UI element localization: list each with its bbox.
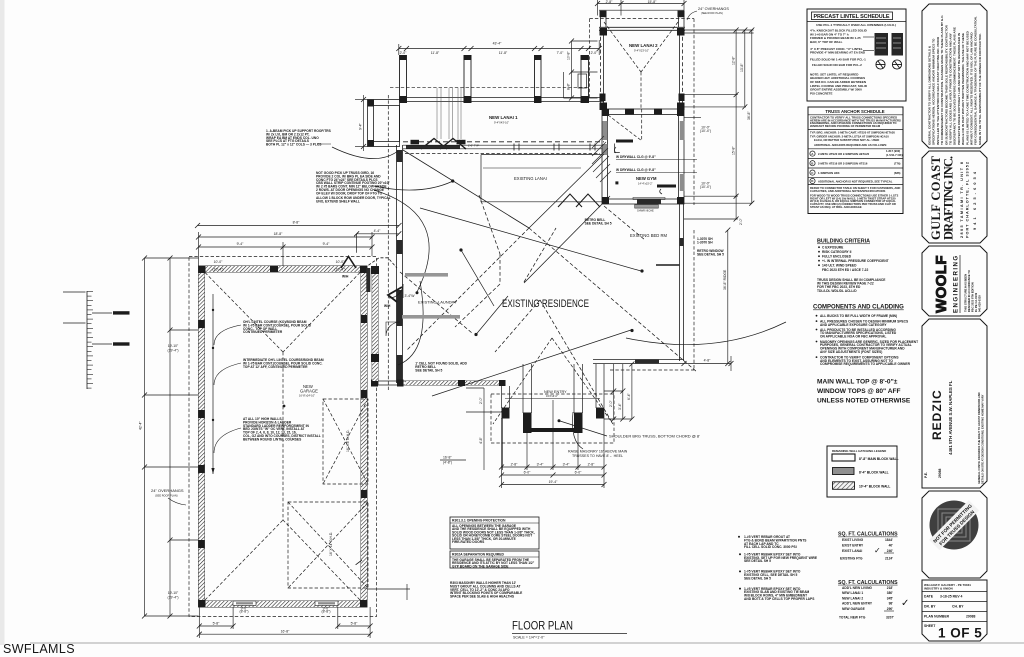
strip section 6: title table [922,580,987,641]
truss anchor schedule box [808,107,903,214]
svg-text:C EXPOSURE: C EXPOSURE [822,246,844,250]
svg-text:EXISTING RESIDENCE: EXISTING RESIDENCE [502,298,589,310]
svg-text:SEE DETAIL SH 5: SEE DETAIL SH 5 [697,252,724,256]
svg-text:RISK CATEGORY II: RISK CATEGORY II [822,250,851,254]
svg-text:PSI CONCRETE: PSI CONCRETE [810,91,833,95]
below-gym gray step [635,205,659,209]
entry roof dashed [491,338,614,443]
svg-text:2'-0": 2'-0" [609,399,613,407]
svg-text:13'-8": 13'-8" [740,63,744,72]
dims right of entry [604,364,632,419]
gym/lanai2 right dims [684,30,754,219]
svg-text:WARRANT BEFORE POURING OF PERI: WARRANT BEFORE POURING OF PERIMETER BEAM [810,124,881,128]
svg-text:2'-8": 2'-8" [511,463,519,467]
svg-text:ADD'L NEW ENTRY: ADD'L NEW ENTRY [842,602,873,606]
left measuring ruler [63,291,86,293]
circled row letters [810,151,815,184]
solid ridge connector [524,196,610,283]
garage door X-box 2 (16x14 OHD) [288,502,368,588]
svg-text:EXIST LIVING: EXIST LIVING [842,538,864,542]
residence south wall (west part) [372,381,505,385]
svg-text:TRUSS ANCHOR SCHEDULE: TRUSS ANCHOR SCHEDULE [825,109,884,114]
walkway wall dark segment [366,268,370,292]
strip section 5: stamp [922,491,987,578]
svg-text:PROVIDE 4" MIN BEARING AT EA E: PROVIDE 4" MIN BEARING AT EA END [810,51,866,55]
svg-text:140 ULT. WIND SPEED: 140 ULT. WIND SPEED [822,264,857,268]
svg-text:COMPROMISE REQUIREMENTS TO APP: COMPROMISE REQUIREMENTS TO APPLICABLE OW… [820,362,911,366]
svg-text:UNLESS NOTED OTHERWISE: UNLESS NOTED OTHERWISE [817,398,911,405]
lanai 2 posts [600,11,685,110]
garage wall: outer and inner [199,266,368,607]
svg-text:NEW LANAI 2: NEW LANAI 2 [842,596,863,600]
center hip ridge dashed band [455,195,556,327]
R301.3.1 opening protection box [450,517,539,549]
detail bubbles [876,60,902,69]
garage overhang dashed outline [189,257,377,617]
svg-text:CONTINUED PERIMETER: CONTINUED PERIMETER [243,330,283,334]
dim vertical right of residence [727,230,729,364]
svg-text:(8'-8"): (8'-8") [239,610,248,614]
svg-text:(19'-4"): (19'-4") [168,596,179,600]
residence left wall [397,145,403,383]
stamp circle [930,501,979,550]
svg-text:SEE DETAIL SH 5: SEE DETAIL SH 5 [415,369,442,373]
dim ticks left [142,256,173,619]
lanai 2 top beam [599,16,685,108]
svg-text:EXISTING FTG: EXISTING FTG [840,556,863,560]
svg-text:ADDITIONAL ANCHORS REQUIRED AR: ADDITIONAL ANCHORS REQUIRED ARE AS FOLLO… [814,143,887,147]
svg-text:TOTAL NEW FTG: TOTAL NEW FTG [839,616,866,620]
svg-text:REMAINING WALL HATCHING LEGEND: REMAINING WALL HATCHING LEGEND [832,449,886,453]
svg-text:6'-0": 6'-0" [524,471,532,475]
svg-text:24" OVERHANGS: 24" OVERHANGS [151,488,184,493]
svg-text:FBC 2023 8TH EDITION: FBC 2023 8TH EDITION [971,282,975,312]
svg-text:BAR, 6" TOP OF WALL: BAR, 6" TOP OF WALL [810,40,843,44]
svg-text:RAISE MASONRY 16" ABOVE MAIN: RAISE MASONRY 16" ABOVE MAIN [568,450,628,454]
svg-text:EXISTING BED RM: EXISTING BED RM [630,233,668,238]
svg-text:5'-8": 5'-8" [351,622,359,626]
svg-text:NEW LANAI 1: NEW LANAI 1 [489,115,518,120]
svg-text:(SEE ROOF PLAN): (SEE ROOF PLAN) [701,12,723,15]
svg-text:SPACE PER SEE SLAB & HIGH HEAL: SPACE PER SEE SLAB & HIGH HEALTHS [450,595,515,599]
svg-text:PORT CHARLOTTE, FL 33952: PORT CHARLOTTE, FL 33952 [966,162,970,238]
residence right wall below gym [680,204,684,361]
strip section 2: GULF COAST DRAFTING INC [922,151,987,243]
svg-text:SEE DETAIL SH 5: SEE DETAIL SH 5 [744,576,771,580]
svg-text:UNO, EXTEND SHELF WALL: UNO, EXTEND SHELF WALL [316,200,360,204]
svg-text:290': 290' [887,607,893,611]
residence south wall (east part) [593,360,684,364]
svg-text:FIRE-RATED DOORS: FIRE-RATED DOORS [452,540,485,544]
garage NE gable peak [341,257,356,269]
svg-text:WOOLF: WOOLF [933,255,950,313]
svg-text:EXISTING-LAUNDRY: EXISTING-LAUNDRY [418,300,457,305]
svg-text:(10'-4"): (10'-4") [700,185,711,189]
svg-text:ADD'L NEW LIVING: ADD'L NEW LIVING [842,586,872,590]
svg-text:SWFLAMLS: SWFLAMLS [3,642,75,656]
strip section 3: WOOLF ENGINEERING [922,246,987,316]
lanai1 overhang dashed top [390,86,590,88]
svg-text:W/H: W/H [384,304,391,308]
svg-text:USE PCL-1 TYPICALLY OVER ALL O: USE PCL-1 TYPICALLY OVER ALL OPENINGS (U… [816,23,896,27]
svg-text:1-SIMPSON HD3: 1-SIMPSON HD3 [818,171,840,175]
svg-text:218': 218' [887,586,893,590]
svg-text:TRUSSES TO HAVE 8'← HEEL: TRUSSES TO HAVE 8'← HEEL [572,454,623,458]
svg-text:FL PE CA-9139: FL PE CA-9139 [974,292,978,312]
masonry wall note [450,581,523,599]
svg-text:FILL CELL SOLID CONC. 3000 PSI: FILL CELL SOLID CONC. 3000 PSI [744,545,797,549]
svg-text:ALL BUCKS TO BE FULL WIDTH OF: ALL BUCKS TO BE FULL WIDTH OF FRAME (MIN… [820,314,897,318]
rebar bullet notes left of sqft [744,535,818,601]
svg-text:4461 5TH AVENUE S.W. NAPLES FL: 4461 5TH AVENUE S.W. NAPLES FL [948,380,953,455]
small post left-bottom gym [615,181,618,184]
entry dims left [466,388,503,470]
svg-text:CH. BY: CH. BY [952,605,964,609]
svg-text:9'-4": 9'-4" [237,242,245,246]
svg-text:2'-0": 2'-0" [739,217,743,225]
gable zigzag over residence wall [421,139,466,150]
lanai 1 posts [400,55,590,103]
svg-text:2'-0": 2'-0" [400,51,408,55]
lanai1 bottom overhang dashed [403,141,604,143]
svg-text:9'-4"X23'-10": 9'-4"X23'-10" [634,49,649,53]
svg-text:BOTH PL 12" x 12" COLS — 3 PLC: BOTH PL 12" x 12" COLS — 3 PLCS [266,143,322,147]
svg-text:36'-8": 36'-8" [747,111,751,120]
svg-text:PLAN NUMBER: PLAN NUMBER [924,615,950,619]
svg-text:11'-8": 11'-8" [499,51,508,55]
svg-text:1844': 1844' [885,538,893,542]
lanai 2 overhang dashed [590,19,695,205]
svg-text:16'-8": 16'-8" [281,630,290,634]
gym interior dashed roof [608,109,642,141]
lintel section images (dark blocks) [875,33,889,56]
svg-text:DRAFTING INC.: DRAFTING INC. [942,156,956,240]
svg-text:FLOOR PLAN: FLOOR PLAN [512,621,573,633]
svg-text:W/H: W/H [342,275,349,279]
svg-text:PRECAST LINTEL SCHEDULE: PRECAST LINTEL SCHEDULE [814,14,890,20]
entry dims bottom [502,400,605,488]
svg-text:AND BOTT.& TOP CELLS TOP PROPE: AND BOTT.& TOP CELLS TOP PROPER LAPS [744,597,815,601]
svg-text:3'-4": 3'-4" [537,463,545,467]
svg-text:ADDITIONAL ANCHOR IS NOT REQUI: ADDITIONAL ANCHOR IS NOT REQUIRED, SEE T… [818,179,893,183]
svg-text:3-18-25 REV 4: 3-18-25 REV 4 [940,595,963,599]
svg-text:16' X 14' O.H.D.: 16' X 14' O.H.D. [329,532,333,556]
dims above garage [198,226,400,267]
svg-text:1 OF 5: 1 OF 5 [938,626,982,641]
retro bell notes [585,218,612,226]
paver hatch left of gym [592,136,611,182]
svg-text:✓: ✓ [874,546,881,555]
svg-text:16'-8": 16'-8" [443,456,452,460]
svg-text:AND APPLICABLE EXPOSURE CATEGO: AND APPLICABLE EXPOSURE CATEGORY [820,323,887,327]
svg-text:4'-8": 4'-8" [704,359,712,363]
svg-text:GARAGE: GARAGE [300,389,318,394]
svg-text:2'-0": 2'-0" [479,396,483,404]
svg-text:(1.5/11.7 OK): (1.5/11.7 OK) [886,153,903,157]
svg-text:2-META HTS16 OR 2-SIMPSON HT: 2-META HTS16 OR 2-SIMPSON HTS16 [818,162,868,166]
svg-text:(8'-8"): (8'-8") [321,610,330,614]
dims above lanai 2 [598,0,685,16]
svg-text:DETAILS ON SITE AT DESIGN COND: DETAILS ON SITE AT DESIGN CONDITIONS, EX… [981,394,985,484]
svg-text:8"-8" MAIN BLOCK WALL: 8"-8" MAIN BLOCK WALL [859,457,899,461]
svg-text:TOP AT 12' AFF, CONTINUED PERI: TOP AT 12' AFF, CONTINUED PERIMETER [243,365,308,369]
svg-text:THIS STRUCTURE HAS BEEN: THIS STRUCTURE HAS BEEN [964,274,968,312]
strip section 4: REDZIC [922,319,987,488]
gable peaks near lanai/gym junction [558,194,582,207]
svg-text:(686): (686) [894,171,901,175]
svg-text:NEW GYM: NEW GYM [636,176,657,181]
svg-text:36'-8" RIDGE: 36'-8" RIDGE [723,269,727,290]
svg-text:42'-4": 42'-4" [139,421,143,430]
garage note 2 [243,358,324,369]
retro window notes [697,237,724,256]
svg-text:2-META HTS20 OR 2-SIMPSON HE: 2-META HTS20 OR 2-SIMPSON HETA20 [818,152,870,156]
dims below garage [199,584,410,638]
svg-text:MADE IN THE TOTAL RESPONSIBILI: MADE IN THE TOTAL RESPONSIBILITY OF THE … [978,33,982,145]
svg-text:DATE: DATE [924,595,934,599]
lintel schedule left column text [810,29,868,96]
lanai 2 roof dashes [604,22,678,109]
svg-text:29088: 29088 [966,615,976,619]
lanai 1 dim line [399,40,599,55]
existing lanai outline [481,155,602,202]
svg-text:7'-0": 7'-0" [557,51,565,55]
leader lines with dots [420,208,641,396]
dim line to garage [357,233,399,235]
svg-text:14'-4"x15'-2": 14'-4"x15'-2" [638,181,653,185]
svg-text:10'-0": 10'-0" [214,260,223,264]
entry posts [502,408,605,434]
svg-text:TYP. GIRDER ANCHOR: 2-META L: TYP. GIRDER ANCHOR: 2-META LGT2A AT SIMP… [810,134,889,138]
svg-text:TDL/LDL WDL/DL ACLL/D: TDL/LDL WDL/DL ACLL/D [817,289,857,293]
residence top wall hatched segments [406,145,460,149]
svg-text:✓: ✓ [901,598,909,609]
garage door X-box 1 (16x8 OHD) [323,399,368,484]
heavy bent leader near laundry [388,287,402,302]
roof peak marks near laundry top [365,258,398,268]
svg-text:1-817 (900): 1-817 (900) [886,149,900,153]
gym wall fills [602,109,684,205]
laundry west wall strip [372,267,378,385]
svg-text:43'-4": 43'-4" [493,42,502,46]
note leader arcs to arrow [214,325,241,453]
svg-text:ENGINEERING: ENGINEERING [953,255,960,313]
svg-text:29088: 29088 [938,468,942,478]
bed rm window on right wall [656,264,680,266]
svg-text:TYP. BRG. ANCHOR: 1-META CAM: TYP. BRG. ANCHOR: 1-META CAMT. HTS20 AT … [810,131,895,135]
svg-text:COMPONENTS AND CLADDING: COMPONENTS AND CLADDING [813,305,904,311]
svg-text:ON APPLICABLE NOA OR FBC APPRO: ON APPLICABLE NOA OR FBC APPROVAL [820,335,886,339]
svg-text:4'-4": 4'-4" [374,229,382,233]
svg-text:SQ. FT. CALCULATIONS: SQ. FT. CALCULATIONS [838,580,898,586]
left scan edge [0,0,5,645]
svg-text:MAIN WALL TOP @ 8'-0"±: MAIN WALL TOP @ 8'-0"± [817,379,898,386]
svg-text:3'-4"W: 3'-4"W [405,294,416,298]
svg-text:(19'-4"): (19'-4") [168,349,179,353]
svg-text:3'-4": 3'-4" [563,463,571,467]
svg-text:9'-4": 9'-4" [359,122,363,130]
dashed overhang left of residence [387,95,389,390]
svg-text:941-629-0329: 941-629-0329 [978,295,982,312]
svg-text:(SEE ROOF PLAN): (SEE ROOF PLAN) [155,493,178,497]
svg-text:BETWEEN ROUND LINTEL COURSES: BETWEEN ROUND LINTEL COURSES [243,437,302,441]
svg-text:24" OVERHANGS: 24" OVERHANGS [698,7,729,11]
bottom-right overhang dashed corner [610,230,694,370]
garage door openings in bottom wall [233,601,256,606]
svg-text:GENERAL CONTR. DRAWINGS THE RI: GENERAL CONTR. DRAWINGS THE RIGHT TO ADJ… [977,392,981,484]
existing wall lines under lanai1 [437,88,461,139]
svg-text:NEW ENTRY: NEW ENTRY [544,390,567,394]
lintel schedule box [807,9,906,101]
svg-text:OF ELEV W/ DOOR, DROP TOP OF F: OF ELEV W/ DOOR, DROP TOP OF FTG TO [316,191,383,195]
entry post stems [502,364,605,413]
leader arcs upper-left notes [332,147,786,365]
note block top-left 1 [266,129,332,147]
svg-text:R302A SEPARATION REQUIRED: R302A SEPARATION REQUIRED [452,553,504,557]
svg-text:EXIST ENTRY: EXIST ENTRY [842,543,864,547]
svg-text:8'-4" BLOCK WALL: 8'-4" BLOCK WALL [859,470,889,474]
svg-text:SQ. FT. CALCULATIONS: SQ. FT. CALCULATIONS [838,532,898,538]
svg-text:(10'-4"): (10'-4") [700,129,711,133]
svg-text:CAPACITIES, AND ADDITIONAL NOT: CAPACITIES, AND ADDITIONAL NOTES/SPECIFI… [810,189,885,193]
svg-text:1-3070 SH: 1-3070 SH [697,240,713,244]
note block top-left 2 [316,171,391,204]
svg-text:DR. BY: DR. BY [924,605,936,609]
svg-text:6'-4": 6'-4" [627,392,631,400]
svg-text:FBC 2023 8TH ED / ASCE 7-22: FBC 2023 8TH ED / ASCE 7-22 [822,268,868,272]
svg-text:2'-0": 2'-0" [591,51,599,55]
svg-text:98': 98' [889,602,894,606]
strip section 1: general notes [922,4,987,148]
svg-text:15'-8": 15'-8" [648,0,657,4]
gym top-left label blob [616,140,633,143]
leader lines to blocks [863,36,874,38]
svg-text:ANY SIZE ADJUSTMENTS (FONT SIZ: ANY SIZE ADJUSTMENTS (FONT SIZES) [820,350,882,354]
svg-text:GYP BOARD ON THE GARAGE SIDE: GYP BOARD ON THE GARAGE SIDE [452,564,509,568]
svg-text:2124': 2124' [885,556,893,560]
svg-text:10'-8": 10'-8" [567,51,571,60]
lanai 2 dashed side walls [600,30,682,108]
svg-text:2'-8": 2'-8" [588,463,596,467]
svg-text:3207': 3207' [886,616,894,620]
svg-text:R301.3.1 OPENING PROTECTION: R301.3.1 OPENING PROTECTION [452,519,506,523]
svg-text:11'-8": 11'-8" [431,51,440,55]
dim line left of entry baseline [440,459,466,461]
left bay dims [355,95,368,151]
svg-text:16'-8"x24'-10": 16'-8"x24'-10" [299,393,315,397]
svg-text:EXISTING LANAI: EXISTING LANAI [514,176,547,181]
garage corner posts [199,266,368,607]
svg-text:240': 240' [887,549,893,553]
svg-text:NEW LANAI 1: NEW LANAI 1 [842,591,863,595]
svg-text:+/- IN INTERNAL PRESSURE COEFF: +/- IN INTERNAL PRESSURE COEFFICIENT [822,259,889,263]
gray highlighter bars [405,273,448,277]
svg-text:345': 345' [887,596,893,600]
svg-text:3'-4": 3'-4" [618,402,622,410]
svg-text:SHOULDER BRG TRUSS, BOTTOM CHO: SHOULDER BRG TRUSS, BOTTOM CHORD @ 8' [609,434,700,439]
gym bottom wall window [637,200,661,205]
svg-text:W DRYWALL CLG @ 9'-8": W DRYWALL CLG @ 9'-8" [616,155,656,159]
garage roof dashed hips [205,273,360,601]
svg-text:STRAP AS REQ. AT BRG. ANCHORAG: STRAP AS REQ. AT BRG. ANCHORAGE [810,205,862,209]
svg-text:(10'-4"): (10'-4") [213,268,224,272]
svg-text:SHWR NICHE: SHWR NICHE [637,209,654,213]
svg-text:10'-4" BLOCK WALL: 10'-4" BLOCK WALL [859,485,890,489]
dashed line under west wing wall [405,153,600,155]
svg-text:19'4"x6'-0": 19'4"x6'-0" [546,395,558,398]
svg-text:EACH, OR BETTER SUBSTITUTED NO: EACH, OR BETTER SUBSTITUTED NOT AL. USED [814,138,879,142]
svg-text:2805 TAMIAMI TR. UNIT 8: 2805 TAMIAMI TR. UNIT 8 [960,162,964,238]
svg-text:EXIST LANAI: EXIST LANAI [842,549,862,553]
svg-text:SHEET: SHEET [924,624,936,628]
svg-text:4'-8": 4'-8" [479,436,483,444]
garage wall hatch fill [199,266,368,607]
dim chain left of lanai 2 [564,41,598,98]
svg-text:9'-4"X43'-10": 9'-4"X43'-10" [494,121,509,125]
svg-text:5'-8": 5'-8" [213,622,221,626]
svg-text:SEE DETAIL SH 5: SEE DETAIL SH 5 [585,222,612,226]
tick pairs on wall line [514,144,595,151]
bottom scan rule [30,642,1024,644]
svg-text:15'-8": 15'-8" [732,146,736,155]
svg-text:(4'-8"): (4'-8") [443,461,452,465]
garage interior vertical arrow [212,294,214,474]
lanai 1 top wall [400,98,605,102]
svg-text:2'-8": 2'-8" [606,0,614,4]
laundry door arcs [386,284,403,336]
svg-text:8'-8": 8'-8" [567,82,571,90]
svg-text:BUILDING CRITERIA: BUILDING CRITERIA [817,239,870,245]
svg-text:WINDOW TOPS @ 80" AFF: WINDOW TOPS @ 80" AFF [817,388,901,395]
svg-text:P.E.: P.E. [924,472,928,478]
svg-text:REDZIC: REDZIC [930,389,944,440]
solid roof valley V [403,150,604,228]
svg-text:2'-8" TYP: 2'-8" TYP [468,144,479,148]
bottom-right residence dims [684,356,731,371]
svg-text:(10'-4"): (10'-4") [335,268,346,272]
svg-text:FULLY ENCLOSED: FULLY ENCLOSED [822,255,852,259]
lanai 1 column grid lines [400,55,589,102]
svg-text:FILLED SOLID NO BAR FOR PCL-2: FILLED SOLID NO BAR FOR PCL-2 [812,63,862,67]
svg-text:40': 40' [889,543,894,547]
svg-text:SCALE = 1/4"=1'-0": SCALE = 1/4"=1'-0" [513,636,545,640]
big dashed roof diagonals across residence [400,206,697,424]
svg-text:19'-10": 19'-10" [168,591,179,595]
svg-text:19'-4": 19'-4" [549,480,558,484]
garage note 3 [243,417,321,441]
svg-text:16' X 8' O.H.D.: 16' X 8' O.H.D. [346,430,350,452]
svg-text:19'-10": 19'-10" [168,344,179,348]
svg-text:NEW LANAI 2: NEW LANAI 2 [629,43,658,48]
svg-text:W DRYWALL CLG @ 9'-8": W DRYWALL CLG @ 9'-8" [616,168,656,172]
svg-text:18'-8": 18'-8" [274,232,283,236]
svg-text:DESIGNED IN ACCORDANCE TO: DESIGNED IN ACCORDANCE TO [967,270,971,312]
R302A separation box [450,551,539,568]
svg-text:6'-0": 6'-0" [575,471,583,475]
svg-text:12'-8": 12'-8" [732,56,736,65]
svg-text:(776): (776) [894,162,901,166]
svg-text:FILLED SOLID W/ 1-#5 BAR FOR P: FILLED SOLID W/ 1-#5 BAR FOR PCL-1 [810,57,866,61]
gym interior notes [616,155,656,172]
lanai 1 left bay [368,100,400,147]
svg-text:9'-4": 9'-4" [323,242,331,246]
stamp white band [929,500,979,550]
garage note 1 [243,320,312,334]
svg-text:INDUSTRY & UNION: INDUSTRY & UNION [924,587,953,591]
svg-text:380': 380' [887,591,893,595]
svg-text:SEE DETAIL SH 5: SEE DETAIL SH 5 [744,559,771,563]
svg-text:NEW GARAGE: NEW GARAGE [842,607,866,611]
